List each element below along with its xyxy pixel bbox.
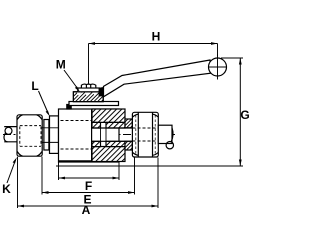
dim G top extension <box>221 57 243 59</box>
dim A line <box>18 205 159 207</box>
svg-text:G: G <box>240 108 249 122</box>
seat rings (hatched) <box>92 122 101 128</box>
dim H right extension <box>217 44 219 57</box>
leader K <box>7 160 16 183</box>
right hex nut <box>132 112 158 157</box>
svg-text:K: K <box>2 182 11 196</box>
tube stub left <box>4 127 17 142</box>
dim H line <box>89 43 218 45</box>
centerline main axis <box>3 134 175 136</box>
hex nut left L <box>17 115 42 156</box>
right tube stub <box>158 125 172 143</box>
leader L <box>39 91 49 114</box>
dim H left extension <box>88 44 90 84</box>
vent screw on body top <box>67 105 71 110</box>
gland flange (hatched) <box>73 92 103 102</box>
washer (cutting ring nut face) <box>44 120 49 151</box>
stem nut M <box>78 84 100 92</box>
top plate <box>69 102 119 106</box>
insert hatch lower <box>92 147 125 162</box>
leader M <box>64 70 78 90</box>
svg-text:F: F <box>85 179 92 193</box>
left port boss <box>50 116 59 153</box>
svg-text:A: A <box>82 203 91 217</box>
dim E line <box>42 192 135 194</box>
handle wedge <box>99 88 103 96</box>
svg-text:M: M <box>56 58 66 72</box>
bore lines <box>92 127 133 129</box>
dim G line <box>239 58 241 166</box>
svg-text:H: H <box>152 29 161 43</box>
body bottom edge <box>59 160 120 162</box>
seal ring K (left) <box>5 127 12 134</box>
seal ring right <box>166 142 173 149</box>
dim F line <box>59 177 120 179</box>
svg-text:L: L <box>31 79 38 93</box>
handle ball end <box>209 58 227 76</box>
dim G bottom extension <box>56 165 243 167</box>
handle lever <box>104 60 211 97</box>
valve body block <box>59 109 120 162</box>
insert hatch upper <box>92 109 125 122</box>
